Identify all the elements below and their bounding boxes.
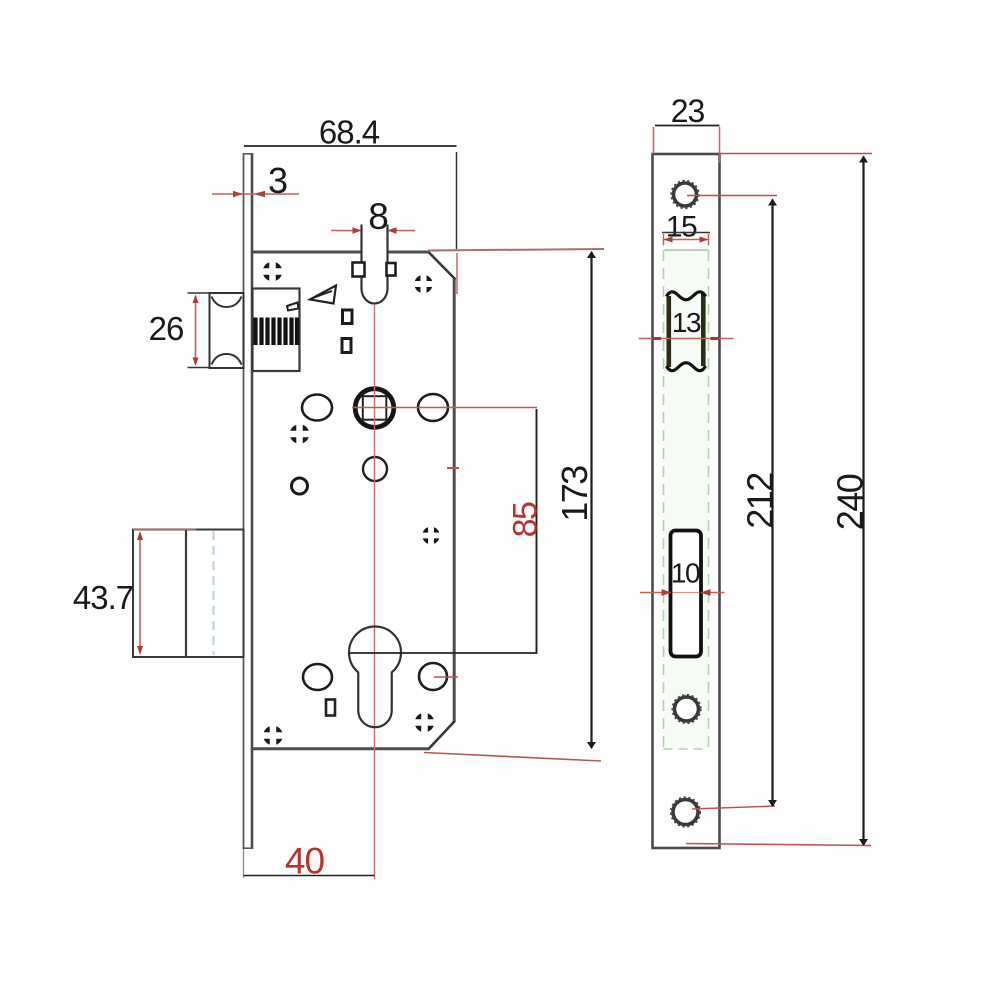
- lock body outline: [252, 252, 456, 749]
- oval hole upper-right: [418, 394, 448, 421]
- dimension 212: [739, 199, 780, 808]
- dimension 85: [507, 409, 545, 653]
- dimension 3 (faceplate thickness): [212, 160, 299, 201]
- extension line right of 68.4: [456, 152, 459, 294]
- svg-text:173: 173: [554, 466, 595, 522]
- svg-text:68.4: 68.4: [319, 114, 380, 151]
- dimension 26 (latch height): [149, 293, 210, 368]
- keyhole rectangle: [326, 700, 335, 716]
- dimension 8 (follower stem): [331, 196, 415, 237]
- red line through lower-right oval: [434, 676, 458, 678]
- dimension 40: [244, 841, 375, 882]
- red ref line (212): [687, 195, 777, 197]
- svg-text:3: 3: [268, 160, 288, 201]
- deadbolt (thrown): [133, 530, 244, 658]
- faceplate side strip: [243, 154, 254, 849]
- recess top line: [665, 249, 709, 251]
- red horizontal line through hub: [352, 407, 537, 409]
- red latch centerline: [639, 338, 734, 340]
- svg-text:13: 13: [672, 307, 701, 338]
- svg-text:10: 10: [671, 558, 700, 589]
- stem ears: [353, 263, 365, 277]
- small lens wedge: [287, 303, 299, 311]
- screw top-left: [262, 261, 283, 282]
- dimension 173: [554, 251, 596, 749]
- screw hole top: [671, 181, 699, 209]
- euro cylinder hole: [349, 627, 401, 728]
- screw mid-left: [289, 424, 310, 445]
- dimension 15: [662, 211, 710, 246]
- recess dashed left: [663, 250, 665, 749]
- screw hole middle: [672, 695, 700, 723]
- spring housing box: [253, 289, 300, 372]
- svg-text:240: 240: [829, 474, 870, 530]
- faceplate front outline: [653, 154, 720, 848]
- oval hole lower-left: [303, 664, 332, 690]
- tiny circle: [292, 478, 308, 494]
- dimension 68.4: [244, 114, 457, 151]
- deadbolt cutout: [671, 531, 702, 657]
- screw top-right: [414, 274, 434, 294]
- cylinder horizontal line: [350, 652, 538, 654]
- small square stop A: [343, 310, 353, 324]
- screw hole bottom: [671, 797, 700, 826]
- wedge arrow pointer: [310, 286, 336, 304]
- red ref line top (240): [720, 153, 872, 155]
- latch cutout: [667, 292, 706, 371]
- latch bolt head (left of plate): [210, 293, 244, 368]
- red ref line bottom (240): [686, 844, 871, 846]
- oval hole lower-right: [419, 663, 447, 690]
- oval hole upper-left: [302, 395, 332, 421]
- svg-text:26: 26: [149, 310, 184, 347]
- svg-text:43.7: 43.7: [73, 579, 133, 616]
- dimension 240: [829, 156, 870, 847]
- follower hub: [355, 389, 394, 428]
- dimension 43.7: [73, 530, 196, 656]
- spring coil: [256, 318, 298, 346]
- circle below hub: [363, 457, 387, 481]
- screw mid-right: [422, 526, 441, 545]
- red ref line bottom screw (212): [692, 806, 775, 809]
- recess tint: [664, 250, 709, 749]
- follower stem (spindle): [362, 225, 388, 304]
- svg-text:212: 212: [739, 473, 780, 529]
- red ref line top (173): [428, 249, 604, 251]
- dimension 23: [654, 93, 720, 163]
- recess bottom dashed: [664, 748, 709, 750]
- svg-text:8: 8: [368, 196, 389, 237]
- red vertical centerline: [374, 305, 376, 879]
- screw bottom-left: [263, 725, 284, 746]
- screw bottom-right: [414, 712, 435, 733]
- recess dashed right: [708, 250, 710, 749]
- small square stop B: [342, 339, 351, 353]
- svg-text:85: 85: [507, 502, 545, 537]
- red dim 10 arrows: [640, 589, 725, 596]
- red tick at body edge: [447, 467, 459, 469]
- red ref line bottom (173): [424, 753, 601, 762]
- svg-text:40: 40: [285, 841, 325, 882]
- svg-text:23: 23: [671, 93, 705, 129]
